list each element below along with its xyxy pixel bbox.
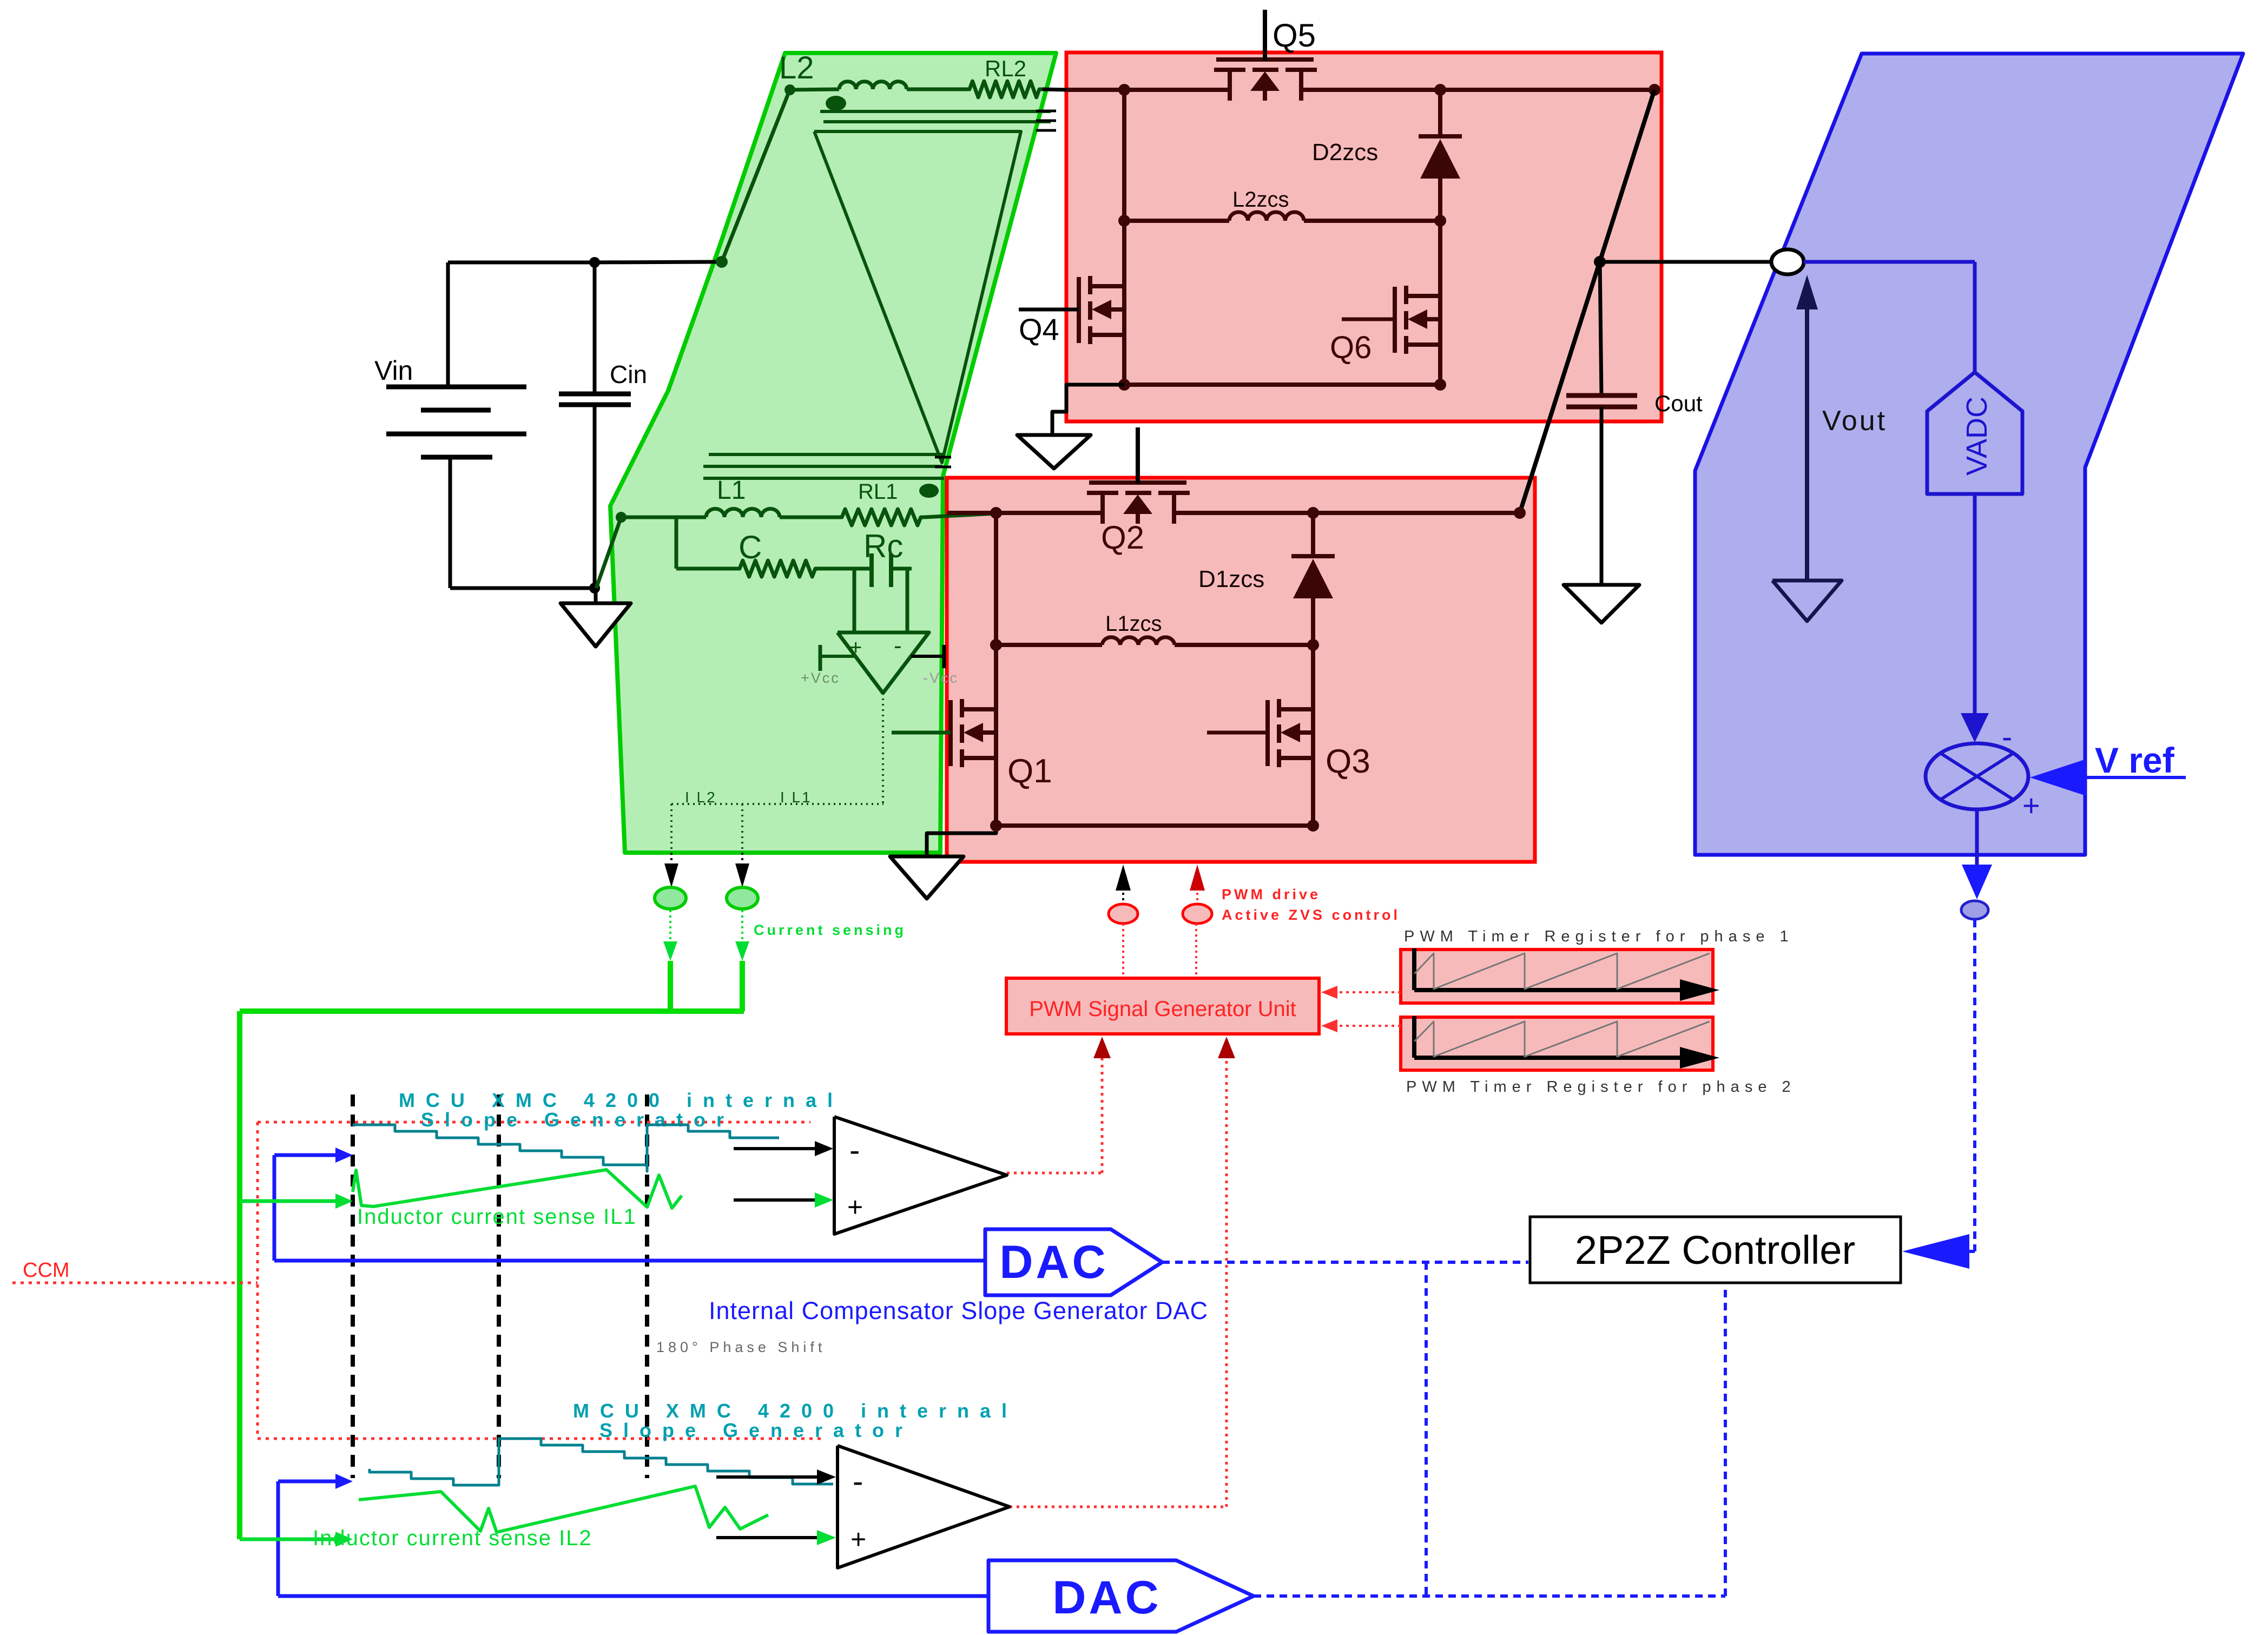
- dotted red to PWM box: [1123, 924, 1196, 978]
- wire output to Vout node: [1600, 260, 1771, 264]
- svg-text:L1zcs: L1zcs: [1105, 612, 1162, 636]
- svg-text:L2zcs: L2zcs: [1232, 188, 1289, 212]
- capacitor Cin: [559, 262, 647, 588]
- wire C to Rc: [819, 567, 872, 571]
- wire Vout node to VADC: [1804, 262, 1975, 372]
- wire Vin bottom rail: [450, 457, 596, 588]
- left rail phase1 upper: [994, 513, 998, 709]
- svg-text:PWM Signal Generator Unit: PWM Signal Generator Unit: [1029, 997, 1296, 1021]
- blue wire DAC2 input: [278, 1594, 988, 1598]
- polarity dot L1: [919, 484, 939, 498]
- node current sense IL2: [655, 887, 686, 909]
- comparator2 plus input: [716, 1530, 836, 1545]
- op-amp output dotted: [882, 693, 884, 804]
- svg-text:-: -: [853, 1464, 863, 1499]
- svg-text:-: -: [849, 1133, 860, 1168]
- wire Vin top to Cin node: [448, 262, 595, 387]
- blue DAC1 feedback elbow: [274, 1148, 353, 1261]
- comparator1 minus input: [734, 1141, 833, 1156]
- node bottom2 right: [1434, 379, 1446, 391]
- node L2zcs left: [1118, 215, 1130, 227]
- left rail phase2 upper: [1122, 90, 1126, 286]
- node L1zcs right: [1307, 639, 1319, 651]
- bottom rail phase2: [1124, 383, 1440, 387]
- svg-text:Inductor current sense IL2: Inductor current sense IL2: [313, 1526, 592, 1550]
- svg-text:Vin: Vin: [374, 355, 413, 386]
- svg-text:Cout: Cout: [1654, 391, 1703, 416]
- node Vin-Cin top: [589, 257, 600, 268]
- timer1 axes: [1414, 948, 1719, 1001]
- wire summer output: [1962, 809, 1992, 899]
- comparator2 output dotted: [1010, 1037, 1235, 1507]
- dashed timing line 2: [497, 1095, 501, 1478]
- green sense drop IL1: [735, 910, 749, 1011]
- svg-text:Rc: Rc: [863, 528, 903, 564]
- dashed timing line 1: [351, 1095, 355, 1478]
- svg-text:C: C: [739, 529, 762, 565]
- PWM signal generator unit box: [1006, 978, 1319, 1034]
- svg-text:PWM Timer Register for phase 1: PWM Timer Register for phase 1: [1404, 928, 1794, 945]
- bottom rail phase1: [996, 823, 1313, 828]
- timer1 to PWM dashed: [1321, 986, 1401, 999]
- node output junction: [1594, 256, 1606, 268]
- svg-text:DAC: DAC: [1052, 1572, 1161, 1624]
- wire RL1 to Q-stage: [924, 513, 996, 517]
- red shaded region phase-2 power stage box: [1066, 52, 1662, 421]
- wire L2 to RL2: [907, 88, 966, 91]
- svg-text:Slope Generator: Slope Generator: [599, 1419, 913, 1441]
- svg-text:Q4: Q4: [1019, 312, 1059, 346]
- green IL1 arrow into slope gen: [240, 1194, 353, 1209]
- wire VADC to summer: [1961, 494, 1989, 742]
- timer2 to PWM dashed: [1321, 1019, 1401, 1032]
- svg-text:I L1: I L1: [780, 789, 812, 806]
- node current sense IL1: [727, 887, 758, 909]
- wire D2zcs to L2zcs node: [1438, 179, 1442, 221]
- top rail phase2: [1066, 88, 1654, 92]
- label MCU internal 2: [573, 1400, 1018, 1441]
- svg-text:Current sensing: Current sensing: [754, 922, 906, 938]
- wire Cin node to green region: [595, 262, 722, 262]
- svg-text:Q1: Q1: [1007, 753, 1052, 790]
- green sense drop IL2: [663, 910, 677, 1011]
- transistor Q4: [1019, 276, 1124, 346]
- svg-text:PWM drive: PWM drive: [1222, 886, 1321, 902]
- svg-text:+: +: [2022, 788, 2040, 822]
- svg-text:L2: L2: [779, 50, 814, 85]
- svg-text:V ref: V ref: [2095, 740, 2175, 780]
- dotted sense bus: [671, 804, 884, 853]
- DAC2 block: [988, 1560, 1254, 1632]
- red dotted frame: [258, 1122, 825, 1439]
- svg-text:CCM: CCM: [23, 1259, 70, 1282]
- node green entry top: [716, 256, 728, 268]
- node bottom1 right: [1307, 820, 1319, 832]
- green IL2 arrow into slope gen: [240, 1532, 353, 1547]
- svg-text:Q5: Q5: [1273, 17, 1316, 54]
- inductor L1: [621, 476, 780, 517]
- svg-text:D2zcs: D2zcs: [1312, 139, 1378, 166]
- left rail phase2 lower: [1122, 335, 1126, 385]
- svg-text:PWM Timer Register for phase 2: PWM Timer Register for phase 2: [1406, 1078, 1796, 1096]
- svg-text:Q3: Q3: [1326, 743, 1370, 780]
- svg-text:Inductor current sense IL1: Inductor current sense IL1: [357, 1205, 637, 1229]
- svg-text:2P2Z Controller: 2P2Z Controller: [1575, 1228, 1855, 1273]
- node Vout open circle: [1771, 249, 1804, 274]
- core line black ticks upper: [1036, 111, 1056, 130]
- svg-text:-: -: [2002, 720, 2012, 755]
- slope stair waveform 1: [353, 1125, 779, 1171]
- op-amp -Vcc supply: [911, 645, 959, 686]
- wire plus input drop: [853, 569, 856, 632]
- comparator2 minus input: [716, 1469, 836, 1485]
- capacitor Cout: [1566, 262, 1703, 585]
- wire minus input drop: [906, 569, 909, 632]
- wire Q6 source to rail: [1438, 345, 1442, 385]
- svg-text:RL2: RL2: [985, 56, 1026, 81]
- svg-text:DAC: DAC: [999, 1236, 1108, 1288]
- svg-text:I L2: I L2: [685, 789, 717, 806]
- node gate drive 1: [1109, 904, 1138, 924]
- wire Q6 drain: [1438, 221, 1442, 296]
- summing junction: [1926, 720, 2040, 822]
- left rail phase1 lower: [994, 758, 998, 826]
- inductor L2: [779, 50, 907, 90]
- arrow PWM drive black: [1116, 865, 1131, 904]
- coupling triangle: [814, 131, 1021, 463]
- wire Rc to minus input: [891, 567, 912, 571]
- wire branch down to compensator: [675, 517, 678, 569]
- svg-text:D1zcs: D1zcs: [1198, 566, 1264, 592]
- op-amp U1 current sense: [838, 632, 929, 693]
- svg-text:RL1: RL1: [858, 480, 898, 504]
- Vref arrow: [2030, 759, 2186, 796]
- svg-text:Q6: Q6: [1330, 330, 1372, 365]
- transistor Q5: [1214, 10, 1317, 101]
- resistor RL2: [966, 56, 1043, 97]
- node rail2 right: [1649, 84, 1660, 96]
- wire Q3 drain: [1311, 645, 1315, 709]
- wire node to L2 row: [722, 91, 789, 262]
- node feedback ellipse: [1961, 901, 1988, 919]
- comparator C1: [834, 1117, 1007, 1234]
- blue wire DAC1 input: [274, 1259, 985, 1263]
- svg-text:Internal Compensator Slope Gen: Internal Compensator Slope Generator DAC: [709, 1297, 1208, 1324]
- Vout indicator arrow: [1772, 275, 1842, 621]
- svg-text:Active ZVS control: Active ZVS control: [1222, 907, 1400, 923]
- node rail1 left: [990, 507, 1002, 519]
- svg-text:MCU XMC 4200 internal: MCU XMC 4200 internal: [399, 1089, 843, 1111]
- comparator1 output dotted: [1007, 1037, 1111, 1173]
- ground below Vin-Cin: [561, 588, 631, 647]
- transistor Q2: [1087, 427, 1190, 556]
- red shaded region phase-1 power stage box: [947, 478, 1535, 862]
- timer2 axes: [1414, 1016, 1719, 1069]
- DAC1 block: [985, 1229, 1162, 1295]
- svg-text:Vout: Vout: [1822, 405, 1887, 437]
- diode D1zcs: [1291, 513, 1335, 598]
- dashed timing line 3: [645, 1095, 649, 1478]
- svg-text:L1: L1: [717, 476, 746, 505]
- wire Q3 source to rail: [1311, 758, 1315, 826]
- transistor Q6: [1330, 286, 1440, 365]
- comparator C2: [838, 1446, 1010, 1568]
- diode D2zcs: [1419, 90, 1462, 179]
- node Vin bottom: [589, 583, 600, 594]
- wire D1zcs to L1zcs node: [1311, 598, 1315, 645]
- resistor C (compensator): [676, 529, 819, 577]
- PWM timer register phase2 box: [1401, 1017, 1713, 1070]
- svg-text:MCU XMC 4200 internal: MCU XMC 4200 internal: [573, 1400, 1018, 1422]
- slope stair waveform 2: [370, 1439, 833, 1485]
- arrow sense IL1: [735, 853, 749, 887]
- timer2 sawtooth: [1414, 1021, 1710, 1057]
- node bottom2 left: [1118, 379, 1130, 391]
- resistor RL1: [839, 480, 924, 525]
- svg-text:180° Phase Shift: 180° Phase Shift: [656, 1339, 826, 1355]
- blue shaded region voltage feedback: [1695, 54, 2243, 855]
- wire L1 to RL1: [780, 516, 839, 519]
- svg-text:VADC: VADC: [1961, 397, 1993, 476]
- capacitor Rc: [863, 528, 903, 587]
- CCM dotted line: [12, 1282, 258, 1284]
- svg-text:Cin: Cin: [610, 360, 647, 388]
- polarity dot L2: [826, 96, 846, 111]
- node L1zcs left: [990, 639, 1002, 651]
- label MCU internal 1: [399, 1089, 843, 1131]
- ground phase2: [1017, 385, 1124, 469]
- ground below Cout: [1564, 585, 1639, 623]
- node L2zcs right: [1434, 215, 1446, 227]
- DAC2 dashed output: [1254, 1284, 1725, 1596]
- timer1 sawtooth: [1414, 953, 1710, 989]
- 2P2Z controller box: [1530, 1217, 1901, 1283]
- inductor L1zcs: [996, 637, 1313, 645]
- core line black ticks lower: [935, 457, 951, 467]
- wire RL2 to red box: [1043, 89, 1066, 90]
- feedback dashed into 2P2Z: [1902, 920, 1975, 1269]
- blue DAC2 feedback elbow: [278, 1474, 353, 1596]
- svg-text:+: +: [847, 1192, 863, 1222]
- DAC1 dashed output: [1162, 1261, 1528, 1264]
- node rail2 D2: [1434, 84, 1446, 96]
- svg-text:+: +: [850, 1524, 866, 1554]
- node rail2 left: [1118, 84, 1130, 96]
- transistor Q1: [892, 699, 1052, 790]
- ground phase1 stage: [890, 826, 996, 899]
- top rail phase1: [947, 511, 1520, 515]
- node rail1 D1: [1307, 507, 1319, 519]
- node rail1 right: [1514, 507, 1526, 519]
- inductor L2zcs: [1124, 212, 1440, 221]
- transistor Q3: [1207, 699, 1370, 780]
- wire diagonal rail to output: [1520, 90, 1654, 513]
- wire Vin bottom to L1 row: [596, 517, 621, 588]
- comparator1 plus input: [734, 1192, 833, 1208]
- voltage source Vin: [374, 355, 526, 457]
- coupled inductor core lines lower: [703, 454, 944, 478]
- op-amp +Vcc supply: [801, 645, 855, 686]
- inductor current waveform IL2: [359, 1486, 768, 1532]
- arrow sense IL2: [664, 853, 678, 887]
- node L2 row left: [784, 84, 795, 95]
- green sense bus: [240, 1011, 744, 1539]
- svg-text:-Vcc: -Vcc: [923, 670, 959, 686]
- dashed branch down: [1425, 1262, 1428, 1596]
- svg-text:Q2: Q2: [1101, 519, 1144, 556]
- node gate drive 2: [1183, 904, 1212, 924]
- node bottom1 left: [990, 820, 1002, 832]
- inductor current waveform IL1: [353, 1170, 682, 1208]
- PWM timer register phase1 box: [1401, 950, 1713, 1003]
- arrow active ZVS red: [1190, 865, 1205, 904]
- svg-text:+Vcc: +Vcc: [801, 670, 840, 686]
- green shaded region (current sensing network): [610, 53, 1056, 853]
- node L1 row left: [616, 512, 627, 523]
- VADC block: [1927, 372, 2022, 494]
- coupled inductor core lines upper: [820, 111, 1051, 122]
- svg-text:-: -: [894, 632, 902, 659]
